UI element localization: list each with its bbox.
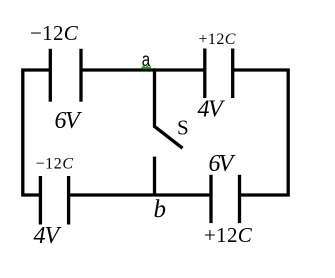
svg-text:S: S (177, 115, 189, 139)
svg-text:b: b (154, 196, 167, 223)
svg-text:−12C: −12C (30, 21, 79, 45)
wire right loop (top-right corner to bottom-right corner) (233, 70, 289, 195)
svg-text:6V: 6V (55, 108, 83, 134)
wire bottom middle (C3 to C4 through node b) (69, 193, 211, 196)
switch S lower lead (153, 157, 156, 196)
capacitor C1 (top-left, -12C / 6V) plates (50, 49, 81, 102)
wire top middle (C1 to C2 through node a) (81, 68, 205, 71)
svg-text:+12C: +12C (204, 223, 253, 247)
svg-text:4V: 4V (34, 223, 62, 249)
capacitor C2 (top-right, +12C / 4V) plates (205, 49, 233, 99)
svg-text:4V: 4V (198, 97, 226, 123)
svg-text:−12C: −12C (36, 156, 74, 173)
wire left loop (top-left corner to bottom-left corner) (23, 70, 51, 195)
svg-text:6V: 6V (209, 151, 236, 177)
switch S upper lead and blade (155, 68, 183, 148)
svg-text:+12C: +12C (199, 31, 236, 48)
capacitor C3 (bottom-left, -12C / 4V) plates (40, 176, 68, 225)
capacitor C4 (bottom-right, 6V / +12C) plates (211, 175, 240, 223)
grammar squiggle under a (142, 66, 151, 68)
